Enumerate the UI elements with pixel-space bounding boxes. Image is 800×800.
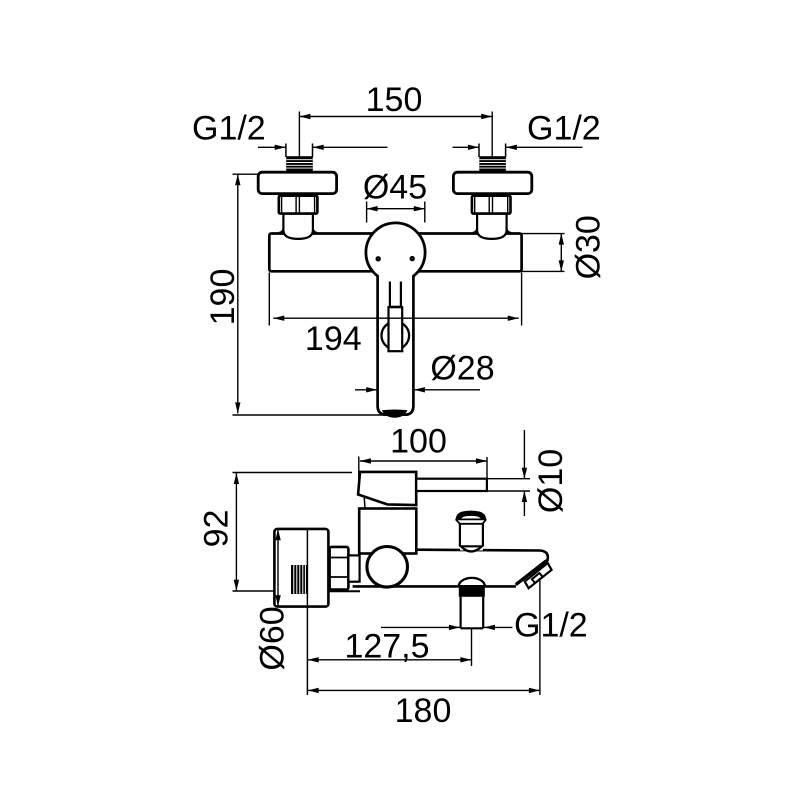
screw hole right bbox=[411, 257, 414, 260]
arrow 92 bottom bbox=[234, 580, 239, 591]
svg-text:Ø30: Ø30 bbox=[570, 215, 608, 279]
G1/2 left leader bbox=[258, 146, 286, 148]
190 ext top bbox=[233, 173, 259, 175]
arrow O60 bottom bbox=[275, 595, 281, 606]
92 ext bottom bbox=[233, 590, 275, 592]
handle stem lower bbox=[389, 307, 403, 351]
left thread nipple top sliver bbox=[286, 144, 313, 158]
diverter neck line bbox=[460, 523, 483, 525]
aerator dark arc bbox=[382, 410, 408, 418]
O45 ext lines bbox=[367, 202, 425, 223]
diverter base dome bbox=[461, 546, 482, 551]
left thread block bbox=[286, 156, 313, 172]
G1/2 left arrow back bbox=[313, 145, 324, 150]
spout nose inner bbox=[532, 573, 543, 583]
G1/2 right leader bbox=[453, 146, 479, 148]
194 ext left bbox=[268, 273, 270, 326]
handle collar line bbox=[388, 306, 402, 308]
shower outlet dome bbox=[459, 578, 485, 586]
union nut (side) bbox=[330, 547, 349, 590]
cartridge housing bbox=[359, 509, 416, 554]
O30 ext lines bbox=[521, 234, 565, 272]
100 ext left tick bbox=[358, 457, 360, 495]
svg-text:190: 190 bbox=[204, 269, 242, 326]
dim line O30 bbox=[560, 234, 562, 272]
arrow 127,5 left bbox=[308, 657, 319, 662]
diverter cylinder sides bbox=[460, 524, 483, 547]
right thread lines bbox=[479, 160, 506, 168]
screw hole left bbox=[377, 257, 380, 260]
mixer body (front view) bbox=[269, 234, 521, 272]
dim line 100 bbox=[360, 460, 487, 462]
right nut facet lines bbox=[475, 196, 508, 213]
arrow 194 right bbox=[508, 316, 519, 321]
svg-text:92: 92 bbox=[198, 510, 236, 548]
G1/2 left arrow in bbox=[275, 145, 286, 150]
arrow O10 down bbox=[522, 468, 527, 479]
svg-text:G1/2: G1/2 bbox=[514, 607, 588, 645]
G1/2 bottom left tail bbox=[381, 626, 460, 628]
right wall connector bell below nut bbox=[477, 214, 507, 239]
wall plane line bbox=[306, 529, 308, 695]
svg-text:Ø60: Ø60 bbox=[254, 606, 292, 670]
arrow 150 right bbox=[481, 114, 492, 119]
right thread nipple top sliver bbox=[479, 144, 506, 158]
left nut facet lines bbox=[282, 196, 315, 213]
100 ext right tick bbox=[486, 457, 488, 492]
spout cut face diagonal thick bbox=[516, 561, 546, 585]
arrow 127,5 right bbox=[460, 657, 471, 662]
O10 upper tail bbox=[523, 430, 525, 479]
180 ext right (spout tip) bbox=[539, 581, 541, 695]
O10 ext lines bbox=[486, 479, 530, 491]
arrow O45 left bbox=[367, 206, 378, 211]
handle rod (side) bbox=[416, 479, 487, 491]
svg-text:Ø45: Ø45 bbox=[363, 169, 427, 207]
dim line O45 bbox=[367, 208, 425, 210]
dim line 127,5 bbox=[308, 659, 472, 661]
arrow 180 left bbox=[308, 688, 319, 693]
svg-text:G1/2: G1/2 bbox=[192, 110, 266, 148]
body side: bottom edge right bbox=[485, 585, 516, 588]
svg-text:100: 100 bbox=[390, 423, 447, 461]
dim line O60 bbox=[277, 529, 279, 606]
G1/2 right arrow back bbox=[506, 145, 517, 150]
tailpiece bbox=[348, 555, 359, 581]
arrow 194 left bbox=[273, 316, 284, 321]
right bell fillet left bbox=[472, 229, 477, 233]
194 ext right bbox=[521, 273, 523, 326]
O28 left leader bbox=[355, 389, 377, 391]
wall flange (O60) bbox=[274, 529, 328, 607]
svg-text:Ø10: Ø10 bbox=[532, 449, 570, 513]
arrow O30 bottom bbox=[559, 260, 564, 271]
ball joint circle bbox=[367, 547, 408, 588]
G1/2 bottom right arrow bbox=[484, 625, 495, 630]
G1/2 bottom left arrow bbox=[449, 625, 460, 630]
shower outlet thread band bbox=[459, 586, 485, 597]
union nut facet lines bbox=[330, 558, 348, 578]
O28 left arrow bbox=[366, 387, 377, 392]
body side: bottom edge left bbox=[353, 585, 459, 588]
dim line 92 bbox=[235, 473, 237, 591]
arrow 180 right bbox=[529, 688, 540, 693]
svg-text:Ø28: Ø28 bbox=[430, 350, 494, 388]
handle stem upper bbox=[390, 282, 401, 307]
escutcheon circle O45 bbox=[366, 223, 425, 282]
housing gap line bbox=[363, 498, 366, 509]
O28 right tail bbox=[414, 389, 480, 391]
svg-text:194: 194 bbox=[305, 320, 362, 358]
right bell fillet right bbox=[507, 229, 512, 233]
svg-text:G1/2: G1/2 bbox=[527, 110, 601, 148]
handle knob circle bbox=[382, 322, 410, 350]
right hex nut bbox=[472, 196, 511, 214]
right escutcheon bbox=[453, 172, 531, 193]
wall thread block bbox=[291, 565, 307, 594]
arrow 190 top bbox=[235, 174, 240, 185]
left bell fillet right bbox=[313, 229, 318, 233]
arrow O10 up bbox=[522, 491, 527, 502]
arrow O45 right bbox=[414, 206, 425, 211]
127,5 ext right bbox=[471, 629, 473, 666]
dim line 180 bbox=[308, 689, 540, 691]
shower outlet bottom bbox=[461, 627, 484, 629]
left wall connector bell below nut bbox=[283, 214, 313, 239]
G1/2 bottom right tail bbox=[484, 626, 513, 628]
wall thread lines bbox=[294, 565, 306, 594]
left hex nut bbox=[279, 196, 318, 214]
G1/2 right arrow in bbox=[468, 145, 479, 150]
spout tube (front) bbox=[378, 276, 414, 415]
spout nose outer bbox=[525, 563, 552, 588]
arrow 150 left bbox=[299, 114, 310, 119]
shower outlet cylinder bbox=[461, 597, 484, 629]
diverter cap dome bbox=[456, 511, 487, 520]
right thread block bbox=[479, 156, 506, 172]
left bell fillet left bbox=[279, 229, 284, 233]
left escutcheon bbox=[258, 172, 336, 193]
arrow 190 bottom bbox=[235, 402, 240, 413]
arrow 100 right bbox=[476, 458, 487, 463]
O28 right arrow bbox=[414, 387, 425, 392]
dim line 150 bbox=[299, 116, 492, 118]
190 ext bottom bbox=[233, 414, 407, 416]
center line left connector bbox=[298, 112, 300, 158]
arrow 92 top bbox=[234, 473, 239, 484]
G1/2 right tail bbox=[506, 146, 583, 148]
left thread lines bbox=[286, 160, 313, 168]
arrow 100 left bbox=[360, 458, 371, 463]
O10 lower tail bbox=[523, 491, 525, 516]
G1/2 left tail bbox=[313, 146, 388, 148]
diverter trapezoid sides bbox=[456, 519, 486, 523]
svg-text:150: 150 bbox=[366, 81, 423, 119]
body side: top edge bbox=[416, 550, 548, 585]
handle grip (side) bbox=[358, 472, 416, 505]
center line right connector bbox=[491, 112, 493, 158]
svg-text:127,5: 127,5 bbox=[344, 627, 429, 665]
line under nut bbox=[329, 590, 361, 592]
diverter cap base bbox=[455, 518, 486, 520]
arrow O30 top bbox=[559, 234, 564, 245]
92 ext top bbox=[233, 472, 353, 474]
arrow O60 top bbox=[275, 529, 281, 540]
dim line 194 bbox=[273, 317, 518, 319]
svg-text:180: 180 bbox=[395, 692, 452, 730]
dim line 190 bbox=[237, 174, 239, 413]
diverter blank bbox=[460, 519, 483, 550]
